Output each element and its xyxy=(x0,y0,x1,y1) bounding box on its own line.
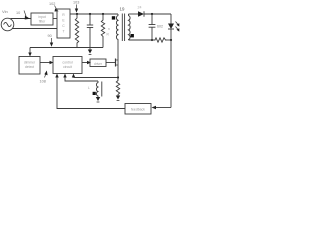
wire feedback to controller xyxy=(57,78,125,109)
ground bulk cap xyxy=(89,48,91,50)
svg-text:E: E xyxy=(62,19,65,23)
wire secondary bottom xyxy=(129,39,155,41)
resistor R3 output xyxy=(154,38,167,42)
svg-text:dimmer: dimmer xyxy=(24,61,36,65)
LED D2 xyxy=(170,14,172,24)
node rail junction 3 xyxy=(102,13,104,15)
top DC rail xyxy=(70,13,118,15)
wire diode to output node xyxy=(144,13,171,15)
svg-text:Vin: Vin xyxy=(2,9,8,14)
svg-text:10: 10 xyxy=(16,11,20,15)
svg-text:R: R xyxy=(107,33,110,37)
wire secondary top xyxy=(129,13,139,15)
node output top xyxy=(151,13,153,15)
transformer core xyxy=(121,14,123,42)
svg-text:C: C xyxy=(62,24,65,28)
feedback box xyxy=(125,104,151,115)
wire sense net horizontal xyxy=(30,47,103,49)
controller pin 2 arrow xyxy=(63,74,66,78)
controller pin 1 arrow xyxy=(55,74,58,78)
wire into dimmer box with arrow xyxy=(29,48,31,54)
svg-text:R: R xyxy=(62,13,65,17)
node LED bottom junction xyxy=(170,39,172,41)
driver box xyxy=(90,59,106,67)
svg-text:19: 19 xyxy=(120,7,125,12)
EMI filter box xyxy=(31,13,53,25)
controller box xyxy=(53,57,82,74)
diode D1 xyxy=(138,11,144,17)
MOSFET Q1 xyxy=(115,59,117,67)
transformer secondary winding xyxy=(129,14,131,40)
transformer primary winding xyxy=(116,14,118,40)
capacitor C2 output xyxy=(151,14,153,25)
wire feedback right drop xyxy=(170,40,172,108)
wire dimmer to controller with arrow xyxy=(40,62,50,64)
aux core line xyxy=(101,82,103,97)
node rail junction 1 xyxy=(76,13,78,15)
wire controller to driver with arrow xyxy=(82,62,87,64)
capacitor C1 bulk xyxy=(89,14,91,25)
wire driver to gate xyxy=(106,62,115,64)
svg-text:L: L xyxy=(88,86,90,90)
resistor R2 xyxy=(101,14,104,48)
svg-text:602: 602 xyxy=(157,25,163,29)
svg-text:driver: driver xyxy=(94,62,103,66)
arrow into feedback box xyxy=(152,106,157,109)
ground aux winding xyxy=(97,96,99,99)
svg-text:n: n xyxy=(130,25,132,29)
svg-text:detect: detect xyxy=(25,65,34,69)
resistor R1 divider xyxy=(75,14,78,48)
svg-text:T: T xyxy=(62,30,64,34)
dimmer detect box xyxy=(19,57,40,75)
controller pin 3 arrow xyxy=(72,74,75,78)
svg-text:input: input xyxy=(38,15,45,19)
LED emission arrows xyxy=(176,22,179,25)
node output cap bottom xyxy=(151,39,153,41)
aux polarity dot xyxy=(93,92,96,95)
svg-text:103: 103 xyxy=(73,1,79,5)
svg-text:24: 24 xyxy=(138,6,142,10)
wire filter to rectifier xyxy=(53,18,57,20)
ground sense resistor xyxy=(116,96,120,100)
svg-text:control: control xyxy=(62,61,72,65)
bridge rectifier U1 xyxy=(57,9,70,38)
node rail junction 2 xyxy=(89,13,91,15)
svg-text:circuit: circuit xyxy=(63,65,72,69)
svg-text:108: 108 xyxy=(40,80,46,84)
aux winding L1 xyxy=(96,81,98,97)
svg-text:feedback: feedback xyxy=(131,108,145,112)
svg-text:filter: filter xyxy=(39,20,46,24)
svg-text:90: 90 xyxy=(48,34,52,38)
svg-text:n: n xyxy=(108,27,110,31)
wire AC top to filter xyxy=(11,18,32,20)
node sense junction xyxy=(117,76,119,78)
secondary polarity dot xyxy=(131,34,134,37)
svg-text:102: 102 xyxy=(49,2,55,6)
wire AC bottom to rectifier xyxy=(12,28,57,30)
AC source V1 xyxy=(1,18,14,31)
primary polarity dot xyxy=(112,16,115,19)
resistor R4 sense xyxy=(116,78,119,96)
